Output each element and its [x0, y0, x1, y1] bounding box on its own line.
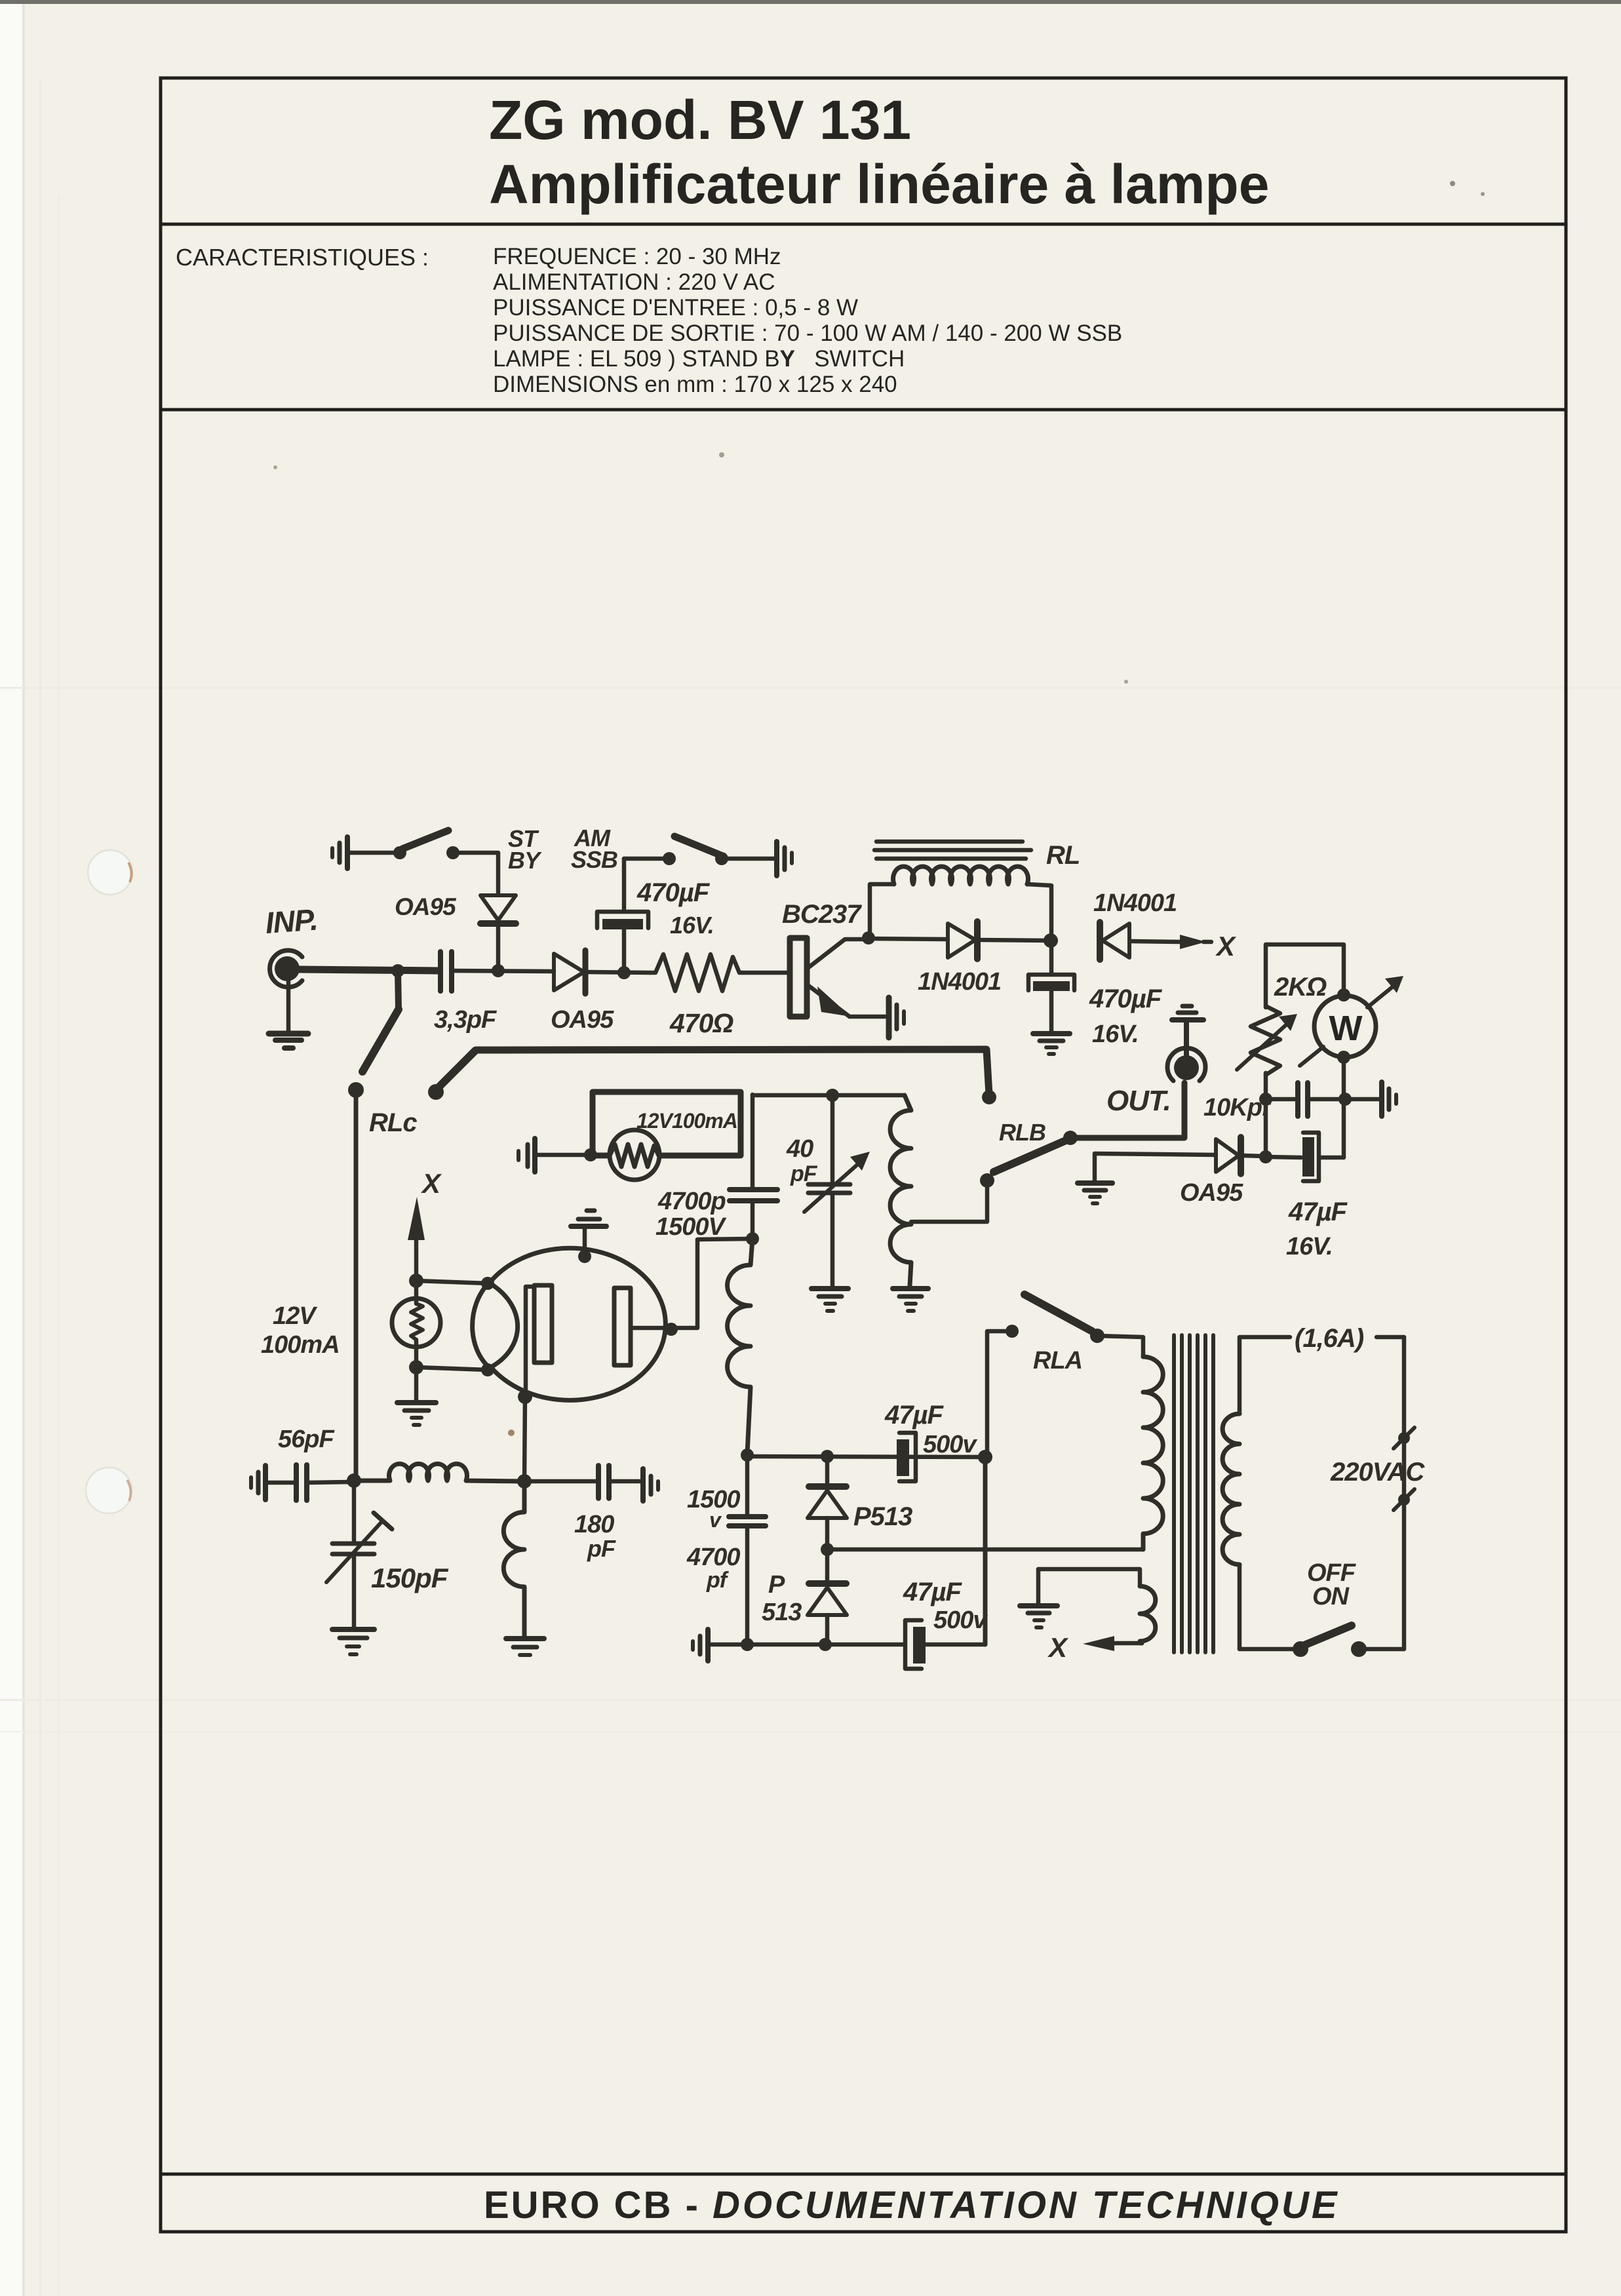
ground left of 56pF: [251, 1466, 265, 1500]
diode OA95 (output detector): [1180, 1137, 1264, 1207]
svg-text:ON: ON: [1312, 1583, 1350, 1610]
node tube cathode bottom: [518, 1390, 532, 1404]
connector INP: [264, 903, 319, 987]
capacitor 40pF variable: [786, 1095, 870, 1287]
potentiometer 2K: [1237, 944, 1344, 1097]
ground left of ST BY switch: [332, 837, 393, 868]
wire HT rail to RLA cap: [747, 1456, 985, 1457]
capacitor 470uF 16V (at RL node): [1028, 942, 1163, 1048]
wire resistor to BC237 base: [742, 971, 789, 975]
wire 3,3pF to OA95: [452, 971, 554, 971]
ground above tube: [571, 1211, 606, 1256]
switch OFF ON: [1240, 1559, 1404, 1657]
wire top net to tank: [752, 1093, 905, 1098]
svg-text:16V.: 16V.: [1092, 1021, 1139, 1048]
svg-text:FREQUENCE : 20 - 30 MHz: FREQUENCE : 20 - 30 MHz: [493, 244, 781, 269]
wire RLA to transformer: [1097, 1336, 1143, 1357]
wire ground-cap net (56pF line): [268, 1426, 351, 1500]
svg-text:W: W: [1329, 1009, 1363, 1048]
box 12V 100mA relay lamp: [593, 1092, 741, 1156]
svg-text:513: 513: [762, 1599, 802, 1626]
capacitor 180pF: [524, 1466, 640, 1562]
wire to X arrow: [1131, 931, 1237, 962]
capacitor 47uF 500v (upper): [884, 1401, 977, 1481]
node RLA rail: [978, 1450, 992, 1464]
node HT rail top: [741, 1449, 754, 1462]
ground below INP: [269, 981, 308, 1048]
resistor 470ohm: [650, 954, 742, 1038]
svg-text:RLB: RLB: [999, 1119, 1045, 1146]
svg-text:16V.: 16V.: [670, 912, 714, 939]
ground below lamp: [397, 1367, 436, 1425]
svg-text:ALIMENTATION : 220 V AC: ALIMENTATION : 220 V AC: [493, 269, 775, 295]
tube grid plate 1: [526, 1285, 552, 1395]
svg-text:1500V: 1500V: [655, 1213, 727, 1241]
node W meter bottom junction: [1338, 1093, 1352, 1106]
capacitor 4700p 1500V: [655, 1095, 777, 1241]
svg-text:180: 180: [574, 1511, 614, 1538]
svg-text:INP.: INP.: [264, 903, 319, 940]
svg-text:500v: 500v: [923, 1431, 977, 1458]
svg-text:pF: pF: [790, 1161, 818, 1186]
node 12V box left: [584, 1148, 597, 1161]
ground at BC237 emitter: [889, 998, 904, 1038]
tube anode plate 2: [614, 1288, 697, 1365]
ground right of AM SSB: [777, 842, 792, 876]
arrow to X (heater supply): [408, 1168, 442, 1281]
capacitor 4700pF 1500V (HT): [686, 1455, 766, 1644]
svg-text:47µF: 47µF: [1288, 1197, 1348, 1226]
wire RLA rail vertical: [983, 1457, 988, 1644]
wire INP to 3,3pF: [300, 969, 439, 971]
wire AM SSB to ground: [722, 857, 774, 861]
switch RLA: [987, 1294, 1104, 1454]
node 40pF top: [826, 1089, 839, 1102]
svg-text:X: X: [1047, 1632, 1069, 1663]
mains wire right: [1402, 1337, 1407, 1649]
wire HV winding to diodes: [827, 1547, 1142, 1552]
inductor grid: [354, 1464, 524, 1481]
capacitor 47uF 16V: [1266, 1133, 1348, 1260]
svg-text:RL: RL: [1046, 841, 1080, 870]
relay coil RL: [870, 841, 1080, 938]
svg-text:CARACTERISTIQUES :: CARACTERISTIQUES :: [176, 244, 429, 271]
svg-text:P: P: [768, 1571, 785, 1599]
svg-text:PUISSANCE DE SORTIE : 70 - 100: PUISSANCE DE SORTIE : 70 - 100 W AM / 14…: [493, 321, 1122, 346]
label 12V 100mA (heater): [261, 1302, 340, 1359]
wire filament to X arrow: [1047, 1632, 1142, 1663]
svg-text:12V100mA: 12V100mA: [636, 1109, 737, 1133]
svg-text:100mA: 100mA: [261, 1331, 340, 1359]
capacitor 47uF 500v (lower): [903, 1578, 988, 1669]
diode P513 (lower): [762, 1549, 847, 1644]
node diode to main wire: [492, 964, 505, 977]
svg-text:X: X: [1215, 931, 1237, 962]
svg-text:1N4001: 1N4001: [1093, 889, 1177, 917]
fuse 1,6A: [1240, 1324, 1404, 1414]
node bottom rail at diode: [819, 1638, 832, 1651]
svg-text:470µF: 470µF: [1089, 984, 1163, 1013]
connector OUT: [1106, 1006, 1205, 1117]
cathode coil: [503, 1481, 524, 1637]
switch RLc second contact: [428, 1051, 475, 1100]
node X arrow (tube heater): [409, 1274, 423, 1288]
svg-text:P513: P513: [853, 1502, 912, 1531]
diode OA95 (vertical): [395, 893, 516, 971]
svg-text:Amplificateur linéaire à lampe: Amplificateur linéaire à lampe: [489, 153, 1269, 215]
svg-text:OUT.: OUT.: [1106, 1085, 1171, 1117]
svg-text:X: X: [421, 1168, 442, 1199]
svg-text:12V: 12V: [273, 1302, 317, 1330]
anode choke coil: [728, 1239, 752, 1454]
wire 2K down to OA95 node: [1264, 1099, 1268, 1157]
diode 1N4001 (right, reversed): [1093, 889, 1177, 960]
wire lamp to tube grid: [416, 1281, 488, 1370]
svg-text:4700p: 4700p: [657, 1188, 726, 1215]
switch ST BY: [393, 825, 542, 874]
diode 1N4001 (left): [918, 922, 1001, 996]
switch RLc pole: [348, 971, 417, 1137]
svg-text:LAMPE : EL 509 ) STAND BY SW: LAMPE : EL 509 ) STAND BY SWITCH: [493, 346, 905, 372]
svg-text:3,3pF: 3,3pF: [434, 1006, 498, 1034]
wire anode up to 4700p node: [697, 1239, 751, 1328]
capacitor 150pF variable: [326, 1481, 449, 1627]
ground below 470uF: [1033, 1034, 1070, 1054]
svg-text:1N4001: 1N4001: [918, 968, 1001, 996]
transformer mains winding: [1222, 1414, 1240, 1565]
svg-text:OA95: OA95: [1180, 1179, 1243, 1207]
node grid coil junction: [517, 1474, 532, 1489]
lamp in 12V box: [610, 1130, 659, 1180]
svg-text:220VAC: 220VAC: [1330, 1458, 1425, 1487]
wire OA95 to resistor: [587, 972, 650, 973]
ground below OUT branch: [1078, 1183, 1112, 1203]
meter W: [1300, 976, 1403, 1066]
ground right of 180pF: [643, 1469, 658, 1501]
node RLB upper contact: [982, 1090, 996, 1104]
ground left of bottom rail: [693, 1629, 708, 1661]
node RL right: [1044, 933, 1058, 948]
svg-text:pF: pF: [587, 1535, 616, 1562]
ground below cathode coil: [506, 1639, 544, 1655]
node bottom rail at HT cap: [741, 1638, 754, 1651]
svg-text:OA95: OA95: [551, 1006, 614, 1034]
wire W bottom to 47uF: [1342, 1057, 1346, 1158]
ground left of 12V lamp box: [518, 1138, 589, 1172]
svg-text:56pF: 56pF: [278, 1426, 335, 1453]
transformer filament winding: [1038, 1569, 1156, 1643]
svg-text:47µF: 47µF: [884, 1401, 945, 1430]
wire collector to 1N4001: [869, 939, 948, 939]
ground below 40pF: [811, 1289, 848, 1311]
node grid tank junction: [347, 1473, 361, 1488]
svg-text:pf: pf: [706, 1568, 730, 1593]
node 10KpF left: [1259, 1150, 1272, 1163]
svg-text:16V.: 16V.: [1286, 1233, 1333, 1260]
svg-text:10Kpf: 10Kpf: [1203, 1094, 1272, 1121]
ground filament winding: [1020, 1569, 1057, 1627]
svg-text:2KΩ: 2KΩ: [1274, 973, 1327, 1002]
transistor BC237: [782, 900, 885, 1017]
tank coil to RLB: [890, 1095, 987, 1286]
svg-text:470µF: 470µF: [636, 878, 711, 907]
switch RLB: [980, 1119, 1078, 1188]
diode OA95 (series, on main wire): [551, 950, 614, 1034]
svg-text:DIMENSIONS en mm : 170 x 125 x: DIMENSIONS en mm : 170 x 125 x 240: [493, 372, 897, 397]
node BC237 collector: [862, 931, 875, 944]
node junction at INP wire: [391, 964, 404, 977]
node tube top: [578, 1250, 591, 1263]
svg-text:BC237: BC237: [782, 900, 862, 929]
svg-text:500v: 500v: [933, 1606, 988, 1634]
wire 10KpF to ground: [1345, 1097, 1379, 1102]
ground right of 10KpF: [1382, 1082, 1396, 1116]
ground below tank coil: [893, 1289, 928, 1311]
wire to RL node: [979, 940, 1051, 941]
wire RLc contact down to tank: [354, 1090, 359, 1479]
transformer core: [1174, 1335, 1213, 1652]
wire switch to diode OA95 vertical: [453, 853, 498, 894]
wire OUT branch to ground and OA95: [1095, 1154, 1216, 1180]
lamp indicator (heater): [392, 1281, 440, 1374]
transformer HV winding: [1143, 1357, 1163, 1549]
svg-text:EURO CB - DOCUMENTATION TECHNI: EURO CB - DOCUMENTATION TECHNIQUE: [484, 2184, 1340, 2227]
svg-text:(1,6A): (1,6A): [1295, 1324, 1364, 1353]
svg-text:PUISSANCE D'ENTREE : 0,5 - 8 W: PUISSANCE D'ENTREE : 0,5 - 8 W: [493, 295, 858, 321]
node diode string top: [821, 1450, 834, 1463]
bottom rail wire: [711, 1643, 903, 1647]
svg-text:OA95: OA95: [395, 893, 457, 920]
diode P513 (upper): [808, 1456, 912, 1549]
svg-text:150pF: 150pF: [371, 1563, 449, 1593]
svg-text:RLc: RLc: [369, 1108, 417, 1137]
svg-text:BY: BY: [508, 847, 542, 874]
svg-text:470Ω: 470Ω: [669, 1008, 733, 1038]
svg-text:4700: 4700: [686, 1544, 740, 1571]
svg-text:40: 40: [786, 1135, 813, 1163]
switch contact 220VAC lower: [1394, 1489, 1415, 1510]
switch contact 220VAC upper: [1394, 1428, 1415, 1449]
ground below 150pF: [332, 1629, 374, 1654]
svg-text:47µF: 47µF: [903, 1578, 963, 1606]
switch AM SSB: [571, 825, 728, 873]
long wire RLc to RLB: [476, 1049, 989, 1095]
node diode string mid: [821, 1543, 834, 1556]
node 470uF junction: [617, 966, 631, 979]
capacitor 3,3pF: [434, 952, 498, 1034]
svg-text:ZG mod. BV 131: ZG mod. BV 131: [489, 89, 911, 151]
capacitor 470uF 16V (polarized, AM/SSB branch): [597, 859, 714, 971]
svg-text:RLA: RLA: [1033, 1347, 1082, 1374]
tube EL509 envelope: [473, 1248, 666, 1400]
svg-text:SSB: SSB: [571, 846, 617, 873]
capacitor 10KpF: [1203, 1083, 1342, 1121]
node anode choke top: [746, 1232, 759, 1245]
wire cathode to grid node: [524, 1397, 525, 1481]
node 10KpF junction: [1259, 1093, 1272, 1106]
wire RLB to OUT: [1070, 1083, 1184, 1138]
